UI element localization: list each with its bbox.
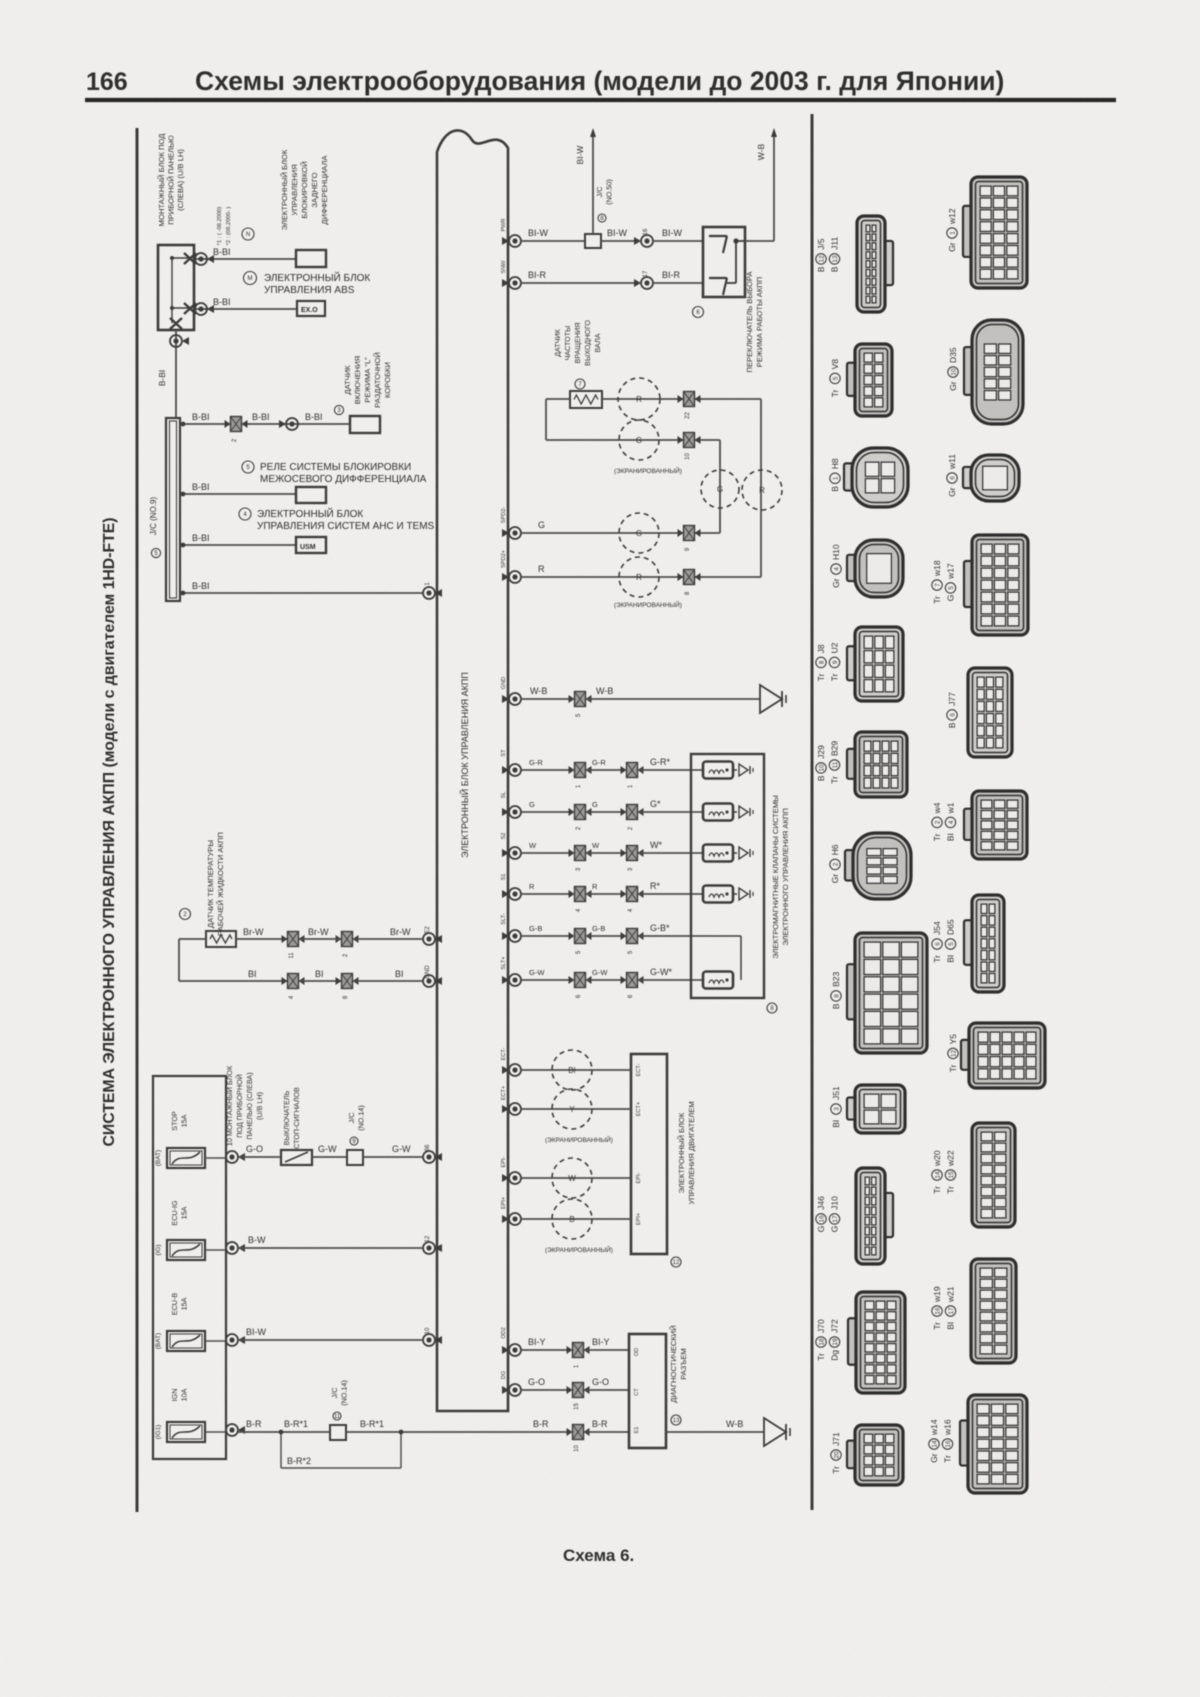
inline connector row1a	[231, 417, 242, 432]
connector BI 2	[342, 974, 353, 989]
wire B-R	[238, 1431, 330, 1433]
sensor loop right vertical	[760, 399, 762, 577]
wire EPI+	[521, 1218, 631, 1220]
connector on B-BI wire	[195, 253, 207, 265]
wire BI-W 1	[521, 240, 585, 242]
connector J29-B29 figure	[847, 749, 859, 779]
connector D35 figure	[964, 347, 976, 395]
montage block inner bus wire	[171, 258, 173, 323]
circled 12 engine ecu	[671, 1257, 681, 1267]
fuse ECU-B bus connector	[226, 1334, 238, 1346]
ATF temp sensor (thermistor)	[206, 931, 236, 947]
output shaft speed sensor	[570, 391, 602, 408]
connector ECU SPD2-	[509, 527, 521, 539]
loop junction dot b	[399, 1430, 404, 1435]
relay caption circ	[242, 461, 254, 473]
wire G-R b	[586, 769, 625, 771]
connector G 1	[575, 805, 586, 820]
connector R 2	[627, 887, 638, 902]
connector ECU G-O	[509, 1384, 521, 1396]
connector G-B 2	[627, 929, 638, 944]
connector W 1	[575, 846, 586, 861]
wire montage block down to J/C	[175, 330, 177, 418]
connector J77 figure	[968, 668, 1012, 757]
wire G-W a	[521, 979, 573, 981]
AT ECU block (ЭЛЕКТРОННЫЙ БЛОК УПРАВЛЕНИЯ АКПП)	[437, 130, 508, 1411]
connector BI-R mid	[641, 277, 653, 289]
J/C NO.9 circled 5	[151, 548, 160, 557]
connector ECU BI-W out	[509, 235, 521, 247]
wire B-W	[238, 1247, 422, 1249]
wire B-BI to ABS ECU	[194, 258, 296, 260]
inline connector row1b	[286, 418, 298, 430]
junction dot jc row3	[181, 543, 186, 548]
sensor wire B	[546, 398, 570, 400]
connector w11 figure	[963, 467, 975, 488]
connector into ECU Br-W	[423, 933, 435, 945]
wire SLT- inside	[691, 935, 741, 937]
J/C NO.50 box	[585, 234, 601, 248]
connector ECU SPD2+	[509, 571, 521, 583]
wire G b	[586, 811, 625, 813]
AHC TEMS block	[296, 537, 326, 553]
wire W a	[521, 852, 573, 854]
connector H8 figure	[844, 463, 856, 490]
connector w12 figure	[963, 206, 975, 257]
wire BI b	[299, 980, 341, 982]
wire W-B diag	[666, 1431, 764, 1433]
wire G c	[638, 811, 691, 813]
wire Br-W b	[299, 938, 341, 940]
ABS ECU caption circle	[244, 272, 257, 285]
circled 2 temp sensor	[180, 909, 191, 920]
ABS ECU block	[296, 250, 326, 267]
montage block U/B LH	[158, 245, 194, 330]
solenoid valve at 770	[703, 762, 733, 779]
symbol N circle	[242, 228, 254, 240]
wire G-B b	[586, 935, 625, 937]
circled 8 solenoid	[767, 1003, 777, 1013]
connector J8-U2 figure	[847, 646, 859, 680]
wire row2 to diff lock relay	[180, 493, 296, 495]
connector G-R 2	[627, 763, 638, 778]
wire Br-W c	[353, 938, 424, 940]
connector B23 figure	[847, 964, 859, 1019]
wire BI-W 2	[601, 240, 639, 242]
shield circle BI ECT-	[552, 1050, 592, 1090]
fuse IGN 10A	[167, 1422, 205, 1442]
connector ECU S2	[509, 847, 521, 859]
wire R b	[586, 893, 625, 895]
connector J70-J72 figure	[848, 1318, 860, 1364]
transfer L mode sensor block	[350, 416, 380, 433]
solenoid ground at 770	[732, 769, 737, 771]
connector ECU EPI+	[509, 1213, 521, 1225]
header rule	[85, 98, 1116, 102]
solenoid ground at 812	[732, 811, 737, 813]
connector ECU BI-Y	[509, 1344, 521, 1356]
A/C NO.14 junction box	[330, 1425, 346, 1440]
wire G-B a	[521, 935, 573, 937]
wire BI-R 1	[521, 282, 639, 284]
connector BI-Y	[573, 1343, 584, 1358]
shield circle G low	[619, 513, 659, 553]
EX.O block	[297, 301, 325, 316]
fuse ECU-IG lead	[205, 1249, 226, 1251]
wire G-O b	[584, 1389, 629, 1391]
left frame border	[136, 128, 139, 1512]
fuse ECU-B lead	[205, 1340, 226, 1342]
connector ECU S1	[509, 888, 521, 900]
connector sensor A	[684, 392, 695, 407]
switch output wire W-B	[745, 240, 774, 242]
connector into ECU G-W	[423, 1151, 435, 1163]
switch contact 2	[709, 277, 727, 279]
wire row3 to AHC block	[180, 544, 296, 546]
ground symbol main	[760, 685, 782, 713]
connector ECU ST	[509, 764, 521, 776]
circled 6 below switch	[693, 307, 704, 318]
wire W b	[586, 852, 625, 854]
connector w4-w1 figure	[964, 809, 976, 840]
scan grain overlay	[0, 0, 1, 1]
shield circle R mid	[742, 470, 782, 510]
wire BI-W 3	[653, 240, 703, 242]
connector G-W 1	[575, 973, 586, 988]
connector sensor B	[684, 433, 695, 448]
wire BI-W up	[592, 131, 594, 234]
solenoid ground at 894	[732, 893, 737, 895]
wire BI-W	[238, 1339, 422, 1341]
connector spd R	[684, 570, 695, 585]
connector spd G	[684, 526, 695, 541]
connector J51 figure	[847, 1097, 859, 1119]
wire R c	[638, 893, 691, 895]
wire G-R a	[521, 769, 573, 771]
connector G 2	[627, 805, 638, 820]
junction arrow pin 7	[184, 253, 196, 264]
wire G a	[521, 811, 573, 813]
circled 7 speed sensor	[575, 379, 585, 389]
connector J46-J10 figure	[881, 1193, 893, 1237]
connector ECU BI-R out	[509, 277, 521, 289]
wire R to ECU	[521, 576, 761, 578]
wire BI c	[353, 980, 424, 982]
wire row4 to ECU	[180, 592, 424, 594]
shield circle R top	[618, 378, 660, 420]
junction dot jc row4	[181, 591, 186, 596]
connector J71 figure	[847, 1441, 859, 1469]
connector into ECU row4	[423, 587, 435, 599]
shield circle G top	[619, 420, 659, 460]
connector below montage block	[170, 335, 182, 347]
shield circle B EPI+	[552, 1199, 592, 1239]
fuse STOP bus connector	[226, 1151, 238, 1163]
connector BI 1	[288, 974, 299, 989]
circled 3 transfer sensor	[334, 405, 343, 414]
B-R*2 loop wire	[280, 1432, 282, 1468]
wire W c	[638, 852, 691, 854]
connector ECU ECT+	[509, 1103, 521, 1115]
connector on EX.O wire	[195, 303, 207, 315]
wire W-B gnd b	[586, 698, 760, 700]
wire ECT-	[521, 1069, 631, 1071]
circled 13 diag	[671, 1415, 681, 1425]
solenoid ground at 853	[732, 852, 737, 854]
solenoid valve SLT	[703, 972, 733, 989]
ground symbol diag	[764, 1418, 786, 1446]
connector w19-w21 figure	[971, 1259, 1016, 1363]
connector G-R 1	[575, 763, 586, 778]
connector ECU EPI-	[509, 1172, 521, 1184]
AHC caption circ	[239, 508, 251, 520]
fuse STOP lead	[205, 1157, 226, 1159]
connector ECU SLT+	[509, 974, 521, 986]
connector G-W 2	[627, 973, 638, 988]
switch contact 1	[709, 235, 727, 237]
loop junction dot a	[279, 1430, 284, 1435]
connector Br-W 2	[342, 932, 353, 947]
AT mode select switch block	[703, 227, 745, 297]
wire W-B gnd a	[521, 698, 573, 700]
connector w20-w22 figure	[972, 1123, 1015, 1227]
wire G-W c	[638, 979, 691, 981]
wire BI-Y b	[584, 1349, 629, 1351]
sensor wire A	[602, 398, 761, 400]
fuse IGN lead	[205, 1431, 226, 1433]
connector H6 figure	[845, 850, 857, 880]
stop lamp switch	[281, 1150, 312, 1165]
fuse ECU-B 15A	[167, 1331, 205, 1351]
wire G-O	[238, 1156, 281, 1158]
shield circle Y ECT+	[552, 1089, 592, 1129]
shield circle W EPI-	[552, 1158, 592, 1198]
connector Y5 figure	[961, 1040, 973, 1070]
fuse IGN bus connector	[226, 1424, 238, 1436]
connector R 1	[575, 887, 586, 902]
solenoid valve at 894	[703, 886, 733, 903]
connector V8 figure	[847, 363, 859, 396]
wire BI-R 2	[653, 282, 703, 284]
wire ECT+	[521, 1108, 631, 1110]
relay block (diff lock)	[296, 487, 326, 503]
right frame border	[811, 114, 814, 1510]
shield circle G mid	[701, 470, 739, 508]
connector into ECU B-W	[423, 1242, 435, 1254]
junction dot jc row2	[181, 492, 186, 497]
wire B-R*1	[346, 1431, 571, 1433]
fuse ECU-IG bus connector	[226, 1242, 238, 1254]
connector W 2	[627, 846, 638, 861]
connector w18-w17 figure	[964, 561, 976, 607]
connector ECU ECT-	[509, 1064, 521, 1076]
wire B-R diag b	[584, 1431, 629, 1433]
wire G-B c	[638, 935, 691, 937]
wire G to ECU	[521, 532, 720, 534]
solenoid valve at 812	[703, 804, 733, 821]
junction arrow pin 8	[184, 303, 196, 314]
connector W-B gnd	[575, 692, 586, 707]
connector J54-D65 figure	[964, 920, 976, 965]
connector ECU SLT-	[509, 930, 521, 942]
diagnostic connector block	[629, 1334, 666, 1448]
fuse ECU-IG 15A	[167, 1240, 205, 1260]
J/C NO.14 box	[347, 1150, 363, 1165]
J/C NO.9 connector strip	[166, 418, 180, 601]
wire G-W a	[312, 1156, 347, 1158]
connector G-B 1	[575, 929, 586, 944]
junction arrow bottom	[170, 318, 182, 329]
wire G-O a	[521, 1389, 571, 1391]
connector H10 figure	[847, 555, 859, 581]
junction dot jc row1	[181, 422, 186, 427]
wire G-R c	[638, 769, 691, 771]
wire EPI-	[521, 1177, 631, 1179]
fuse montage block outline	[153, 1076, 226, 1459]
connector J/5-J11 figure	[881, 241, 893, 285]
wire Br-W a	[236, 938, 287, 940]
wire row B-BI to L sensor	[180, 423, 350, 425]
connector BI-W mid	[641, 235, 653, 247]
wire B-BI to EX.O block	[194, 308, 297, 310]
connector Br-W 1	[288, 932, 299, 947]
wire R a	[521, 893, 573, 895]
connector into ECU BI	[423, 975, 435, 987]
engine ECU block	[631, 1054, 667, 1254]
temp sensor return wire	[179, 938, 206, 940]
wire G-W b	[363, 1156, 424, 1158]
shield circle R low	[619, 557, 659, 597]
connector into ECU BI-W	[423, 1334, 435, 1346]
connector G-O diag	[573, 1383, 584, 1398]
fuse STOP 15A	[167, 1148, 205, 1168]
solenoid valve at 853	[703, 845, 733, 862]
connector B-R diag	[573, 1425, 584, 1440]
sensor loop mid vertical	[719, 440, 721, 533]
solenoid block outline	[691, 754, 764, 998]
wire G-W b	[586, 979, 625, 981]
connector w14-w16 figure	[960, 1420, 972, 1465]
connector ECU GND	[509, 693, 521, 705]
connector ECU SL	[509, 806, 521, 818]
wire BI-Y a	[521, 1349, 571, 1351]
